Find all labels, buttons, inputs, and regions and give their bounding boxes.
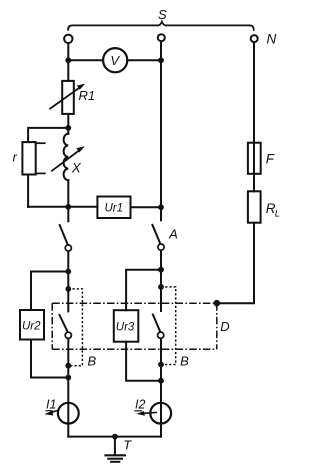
svg-text:I1: I1	[46, 398, 56, 412]
svg-text:X: X	[71, 161, 82, 176]
svg-text:L: L	[275, 209, 280, 220]
svg-text:Ur1: Ur1	[105, 203, 124, 215]
svg-text:B: B	[180, 354, 189, 369]
svg-text:r: r	[13, 150, 18, 165]
svg-text:F: F	[266, 151, 275, 166]
svg-text:D: D	[220, 319, 229, 334]
svg-text:N: N	[267, 32, 277, 47]
svg-text:R1: R1	[79, 88, 96, 103]
svg-text:T: T	[123, 438, 132, 453]
svg-text:B: B	[88, 353, 97, 368]
svg-text:S: S	[158, 7, 167, 22]
svg-text:A: A	[168, 226, 178, 241]
svg-text:I2: I2	[135, 398, 145, 412]
svg-text:V: V	[110, 53, 120, 68]
svg-text:Ur2: Ur2	[22, 321, 41, 333]
svg-text:Ur3: Ur3	[116, 322, 135, 334]
